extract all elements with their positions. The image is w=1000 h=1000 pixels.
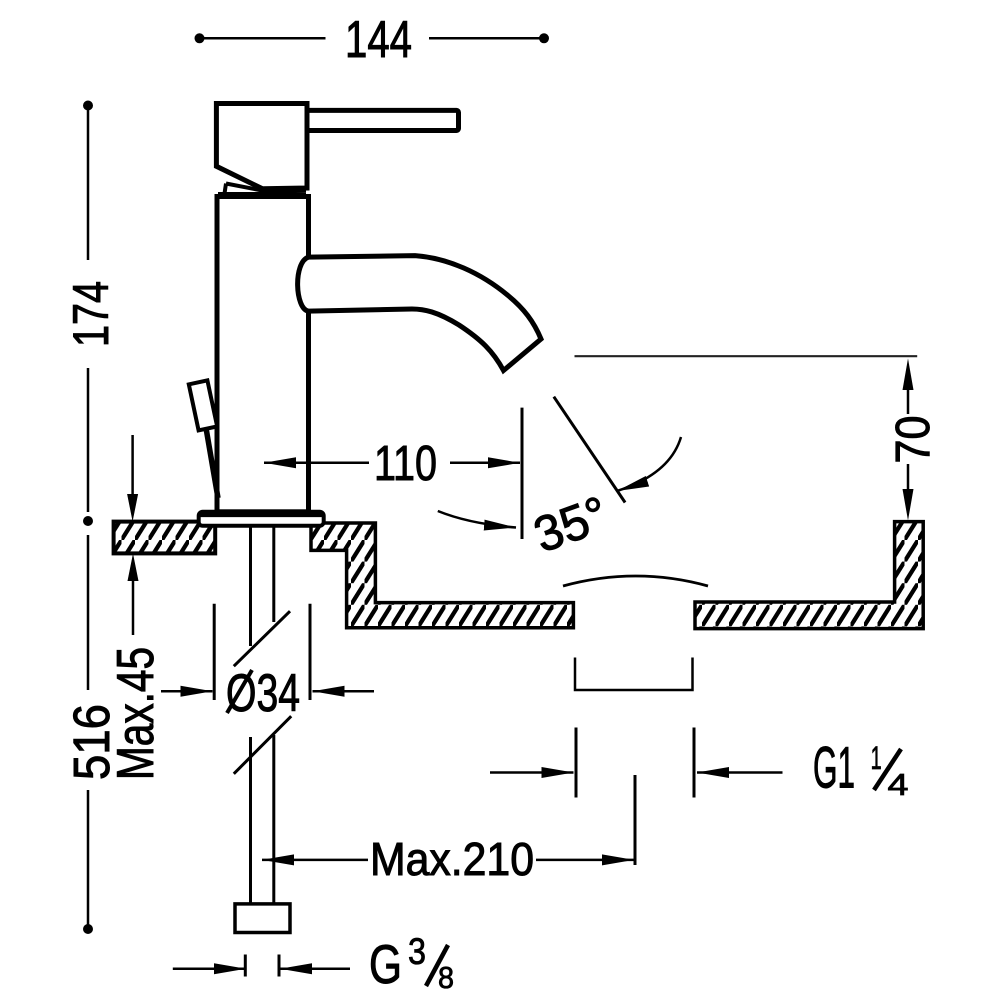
svg-text:110: 110 bbox=[374, 437, 437, 491]
handle housing (cartridge cover) bbox=[216, 104, 307, 189]
countertop middle stepped section (hatched) bbox=[311, 523, 573, 628]
pipe break slash lower bbox=[234, 716, 291, 774]
dimension 516 line bbox=[87, 535, 90, 925]
dimension 70 down arrow bbox=[907, 464, 910, 490]
35 degree curved arrow left bbox=[438, 511, 516, 528]
G1 1/4 arrows bbox=[490, 771, 574, 774]
G 3/8 arrows bbox=[173, 968, 246, 971]
cartridge collar sliver bbox=[218, 184, 306, 195]
35 degree curved arrow right bbox=[617, 437, 681, 491]
basin drain dome arc bbox=[563, 576, 708, 586]
drain tailpiece bracket bbox=[575, 658, 693, 691]
spout outlet extension line bbox=[521, 408, 524, 539]
Max.45 up arrow bbox=[128, 554, 139, 582]
svg-text:1: 1 bbox=[871, 740, 882, 776]
svg-text:144: 144 bbox=[345, 11, 412, 69]
svg-text:G: G bbox=[369, 933, 402, 995]
pop-up waste rod bbox=[206, 428, 218, 498]
G 3/8 dimension ticks bbox=[244, 955, 247, 977]
svg-text:174: 174 bbox=[63, 281, 119, 347]
35 degree jet direction line bbox=[554, 397, 625, 503]
countertop right section with wall (hatched) bbox=[695, 522, 923, 629]
svg-text:3: 3 bbox=[408, 931, 426, 972]
supply valve block bbox=[235, 904, 290, 933]
Max.210 dimension bbox=[634, 775, 637, 865]
dimension 110 arrows bbox=[264, 462, 369, 465]
lever handle bar bbox=[303, 110, 459, 130]
dimension 70 up arrow bbox=[907, 390, 910, 414]
svg-text:Max.45: Max.45 bbox=[107, 647, 165, 780]
svg-text:G1: G1 bbox=[813, 736, 855, 801]
faucet body column bbox=[217, 197, 309, 512]
pop-up waste knob bbox=[189, 380, 217, 430]
supply pipe left line bbox=[249, 527, 252, 903]
svg-text:8: 8 bbox=[438, 960, 454, 995]
water level reference line bbox=[575, 355, 918, 357]
spout (curved outlet) bbox=[298, 256, 541, 371]
G1 1/4 extension lines bbox=[575, 728, 578, 798]
base escutcheon flange bbox=[199, 512, 324, 526]
dimension 144 line bbox=[199, 37, 542, 40]
svg-text:4: 4 bbox=[888, 767, 909, 802]
countertop left section (hatched) bbox=[114, 522, 216, 554]
svg-text:Max.210: Max.210 bbox=[370, 833, 534, 885]
diameter 34 dimension bbox=[213, 604, 216, 700]
Max.45 down arrow bbox=[131, 435, 134, 495]
svg-text:70: 70 bbox=[887, 416, 940, 464]
dimension 174 line bbox=[87, 106, 90, 513]
pipe break slash upper bbox=[234, 611, 290, 666]
supply pipe right line bbox=[272, 527, 275, 903]
